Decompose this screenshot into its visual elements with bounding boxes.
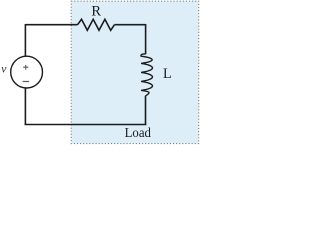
resistor R <box>78 19 115 30</box>
inductor L <box>141 54 153 96</box>
svg-text:v: v <box>1 64 7 76</box>
svg-text:R: R <box>91 4 101 20</box>
wire right vertical lower <box>145 96 147 125</box>
voltage source v <box>11 56 43 88</box>
plus terminal mark <box>23 65 28 70</box>
load region dashed box <box>71 1 199 143</box>
wire left vertical lower <box>24 88 26 125</box>
wire top left to resistor <box>25 24 77 26</box>
wire resistor to top right corner <box>115 24 146 26</box>
wire bottom <box>25 124 147 126</box>
wire left vertical upper <box>24 24 26 56</box>
svg-text:Load: Load <box>125 126 151 141</box>
wire right vertical upper <box>145 24 147 54</box>
svg-text:L: L <box>163 66 172 82</box>
minus terminal mark <box>23 81 29 83</box>
